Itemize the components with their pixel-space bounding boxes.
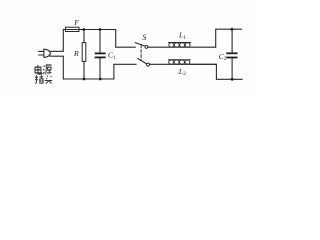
wire bottom rail (63, 78, 114, 80)
svg-text:2: 2 (183, 71, 186, 77)
wire inner bottom (to switch) (114, 63, 136, 65)
wire inner top (to switch) (116, 46, 136, 48)
wire right bottom elbow down (215, 64, 217, 79)
svg-text:1: 1 (183, 35, 186, 41)
capacitor C2 leads (231, 29, 233, 79)
node fuse-R top (82, 28, 85, 31)
char 头 (45, 76, 53, 84)
svg-text:2: 2 (224, 56, 227, 62)
wire right top elbow up (215, 29, 217, 47)
label 电源插头 (hand-drawn CJK) (35, 65, 53, 84)
svg-text:1: 1 (113, 55, 116, 61)
switch S top blade (135, 43, 145, 47)
wire left upper vertical (62, 30, 64, 52)
wire top rail (63, 29, 115, 31)
inductor L1 (169, 43, 191, 48)
capacitor C1 plates (95, 53, 106, 59)
wire switch through L2 to right elbow (150, 63, 217, 65)
capacitor C1 (99, 30, 101, 80)
inductor L2 (168, 60, 190, 64)
wire left lower vertical (62, 56, 64, 79)
switch S bottom blade (138, 58, 147, 64)
char 电 (35, 65, 42, 74)
svg-text:F: F (73, 18, 79, 27)
wire L2 to right elbow (190, 63, 216, 65)
node C2 top (231, 28, 234, 31)
wire plug bottom lead (50, 55, 63, 57)
node C1 bottom (99, 78, 102, 81)
node C1 top (99, 28, 102, 31)
power plug P (39, 49, 51, 57)
wire bottom right rail (216, 78, 242, 80)
svg-text:R: R (73, 49, 79, 58)
node R bottom (83, 78, 86, 81)
svg-text:S: S (142, 33, 146, 42)
wire top right rail (216, 28, 242, 30)
char 源 (43, 65, 51, 74)
switch gang dashed link (140, 44, 142, 60)
wire elbow bottom-left up (113, 64, 115, 79)
wire plug top lead (50, 50, 63, 52)
fuse F (66, 27, 80, 31)
char 插 (35, 75, 43, 84)
resistor R (82, 30, 86, 80)
node C2 bottom (231, 78, 234, 81)
junction dots (82, 28, 233, 81)
switch S bottom contact (147, 63, 150, 66)
wire switch through L1 to right elbow (148, 46, 216, 48)
svg-text:L: L (178, 67, 183, 76)
switch S top contact (145, 46, 148, 49)
wire elbow top-left down (115, 30, 117, 48)
capacitor C2 plates (226, 52, 237, 58)
